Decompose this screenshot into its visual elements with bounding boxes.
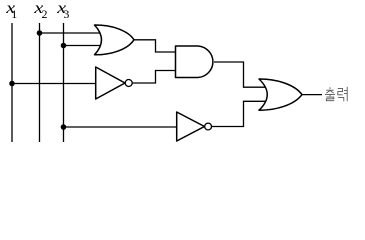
wire OR1 output to AND top input [134,40,176,52]
junction dot on x3 lower [61,124,67,130]
svg-text:1: 1 [11,7,17,21]
glyph ryeok [338,89,343,95]
svg-text:2: 2 [42,7,48,21]
not-gate NOT1 bubble [125,80,132,87]
not-gate NOT1 triangle [96,67,125,99]
not-gate NOT2 bubble [205,123,212,130]
wire x3 to NOT2 input [64,126,178,128]
label x2 [33,0,47,21]
wire NOT1 output to AND bottom input [132,71,176,84]
junction dot on x1 [9,81,15,87]
label x1 [5,0,17,21]
wire OR2 output [302,94,322,96]
label x3 [56,0,69,21]
junction dot on x3 upper [61,43,67,49]
wire x1 vertical rail [11,23,13,142]
label output 출력 (drawn glyphs) [325,87,347,101]
or-gate OR2 [259,79,302,110]
wire x3 to OR1 bottom input [64,45,105,47]
wire x2 to OR1 top input [40,32,105,34]
wire x3 vertical rail [63,23,65,142]
or-gate OR1 [95,25,135,55]
svg-text:3: 3 [63,7,69,21]
glyph chul [329,87,331,89]
junction dot on x2 [37,30,43,36]
wire AND output to OR2 top input [214,62,266,87]
wire NOT2 output to OR2 bottom input [212,101,267,126]
not-gate NOT2 triangle [177,112,205,141]
wire x1 to NOT1 input [12,83,96,85]
and-gate AND1 [176,46,213,78]
wire x2 vertical rail [39,23,41,142]
